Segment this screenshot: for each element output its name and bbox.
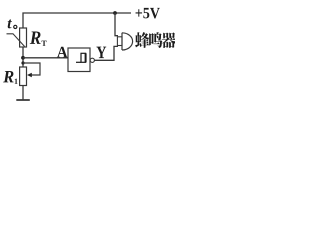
node junction of top rail and buzzer feed xyxy=(113,11,117,15)
wire divider node to gate input A xyxy=(23,57,68,59)
gate U1 pulse symbol body xyxy=(81,53,86,62)
label t° temperature xyxy=(8,19,12,28)
buzzer dome xyxy=(122,33,133,50)
wire top rail from RT top to +5V end xyxy=(23,13,131,28)
resistor RT thermistor body xyxy=(20,28,27,47)
wire +5V feed down to buzzer top lead xyxy=(115,13,118,36)
node divider junction to gate input xyxy=(21,56,25,60)
wire gate output Y to buzzer return lead xyxy=(94,46,118,60)
wire RT bottom to R1 top xyxy=(22,47,24,67)
node wiper tie point xyxy=(21,61,24,64)
label RT xyxy=(30,31,41,43)
label R1 xyxy=(3,71,13,82)
label Y gate output xyxy=(96,47,106,58)
wire R1 wiper loop xyxy=(23,63,40,75)
gate U1 box xyxy=(68,48,90,72)
power label +5V xyxy=(136,8,160,19)
resistor RT thermistor diagonal mark with foot xyxy=(7,34,25,47)
buzzer terminal tab xyxy=(117,37,122,46)
ground bar xyxy=(16,99,30,101)
gate U1 pulse symbol baseline stub xyxy=(76,61,81,63)
R1 wiper arrowhead xyxy=(27,73,32,78)
wire R1 bottom to ground xyxy=(22,86,24,101)
potentiometer R1 body xyxy=(20,67,27,86)
label A gate input xyxy=(57,47,68,58)
label 蜂鸣器 buzzer xyxy=(135,32,149,48)
gate U1 output inverter bubble xyxy=(90,58,94,62)
